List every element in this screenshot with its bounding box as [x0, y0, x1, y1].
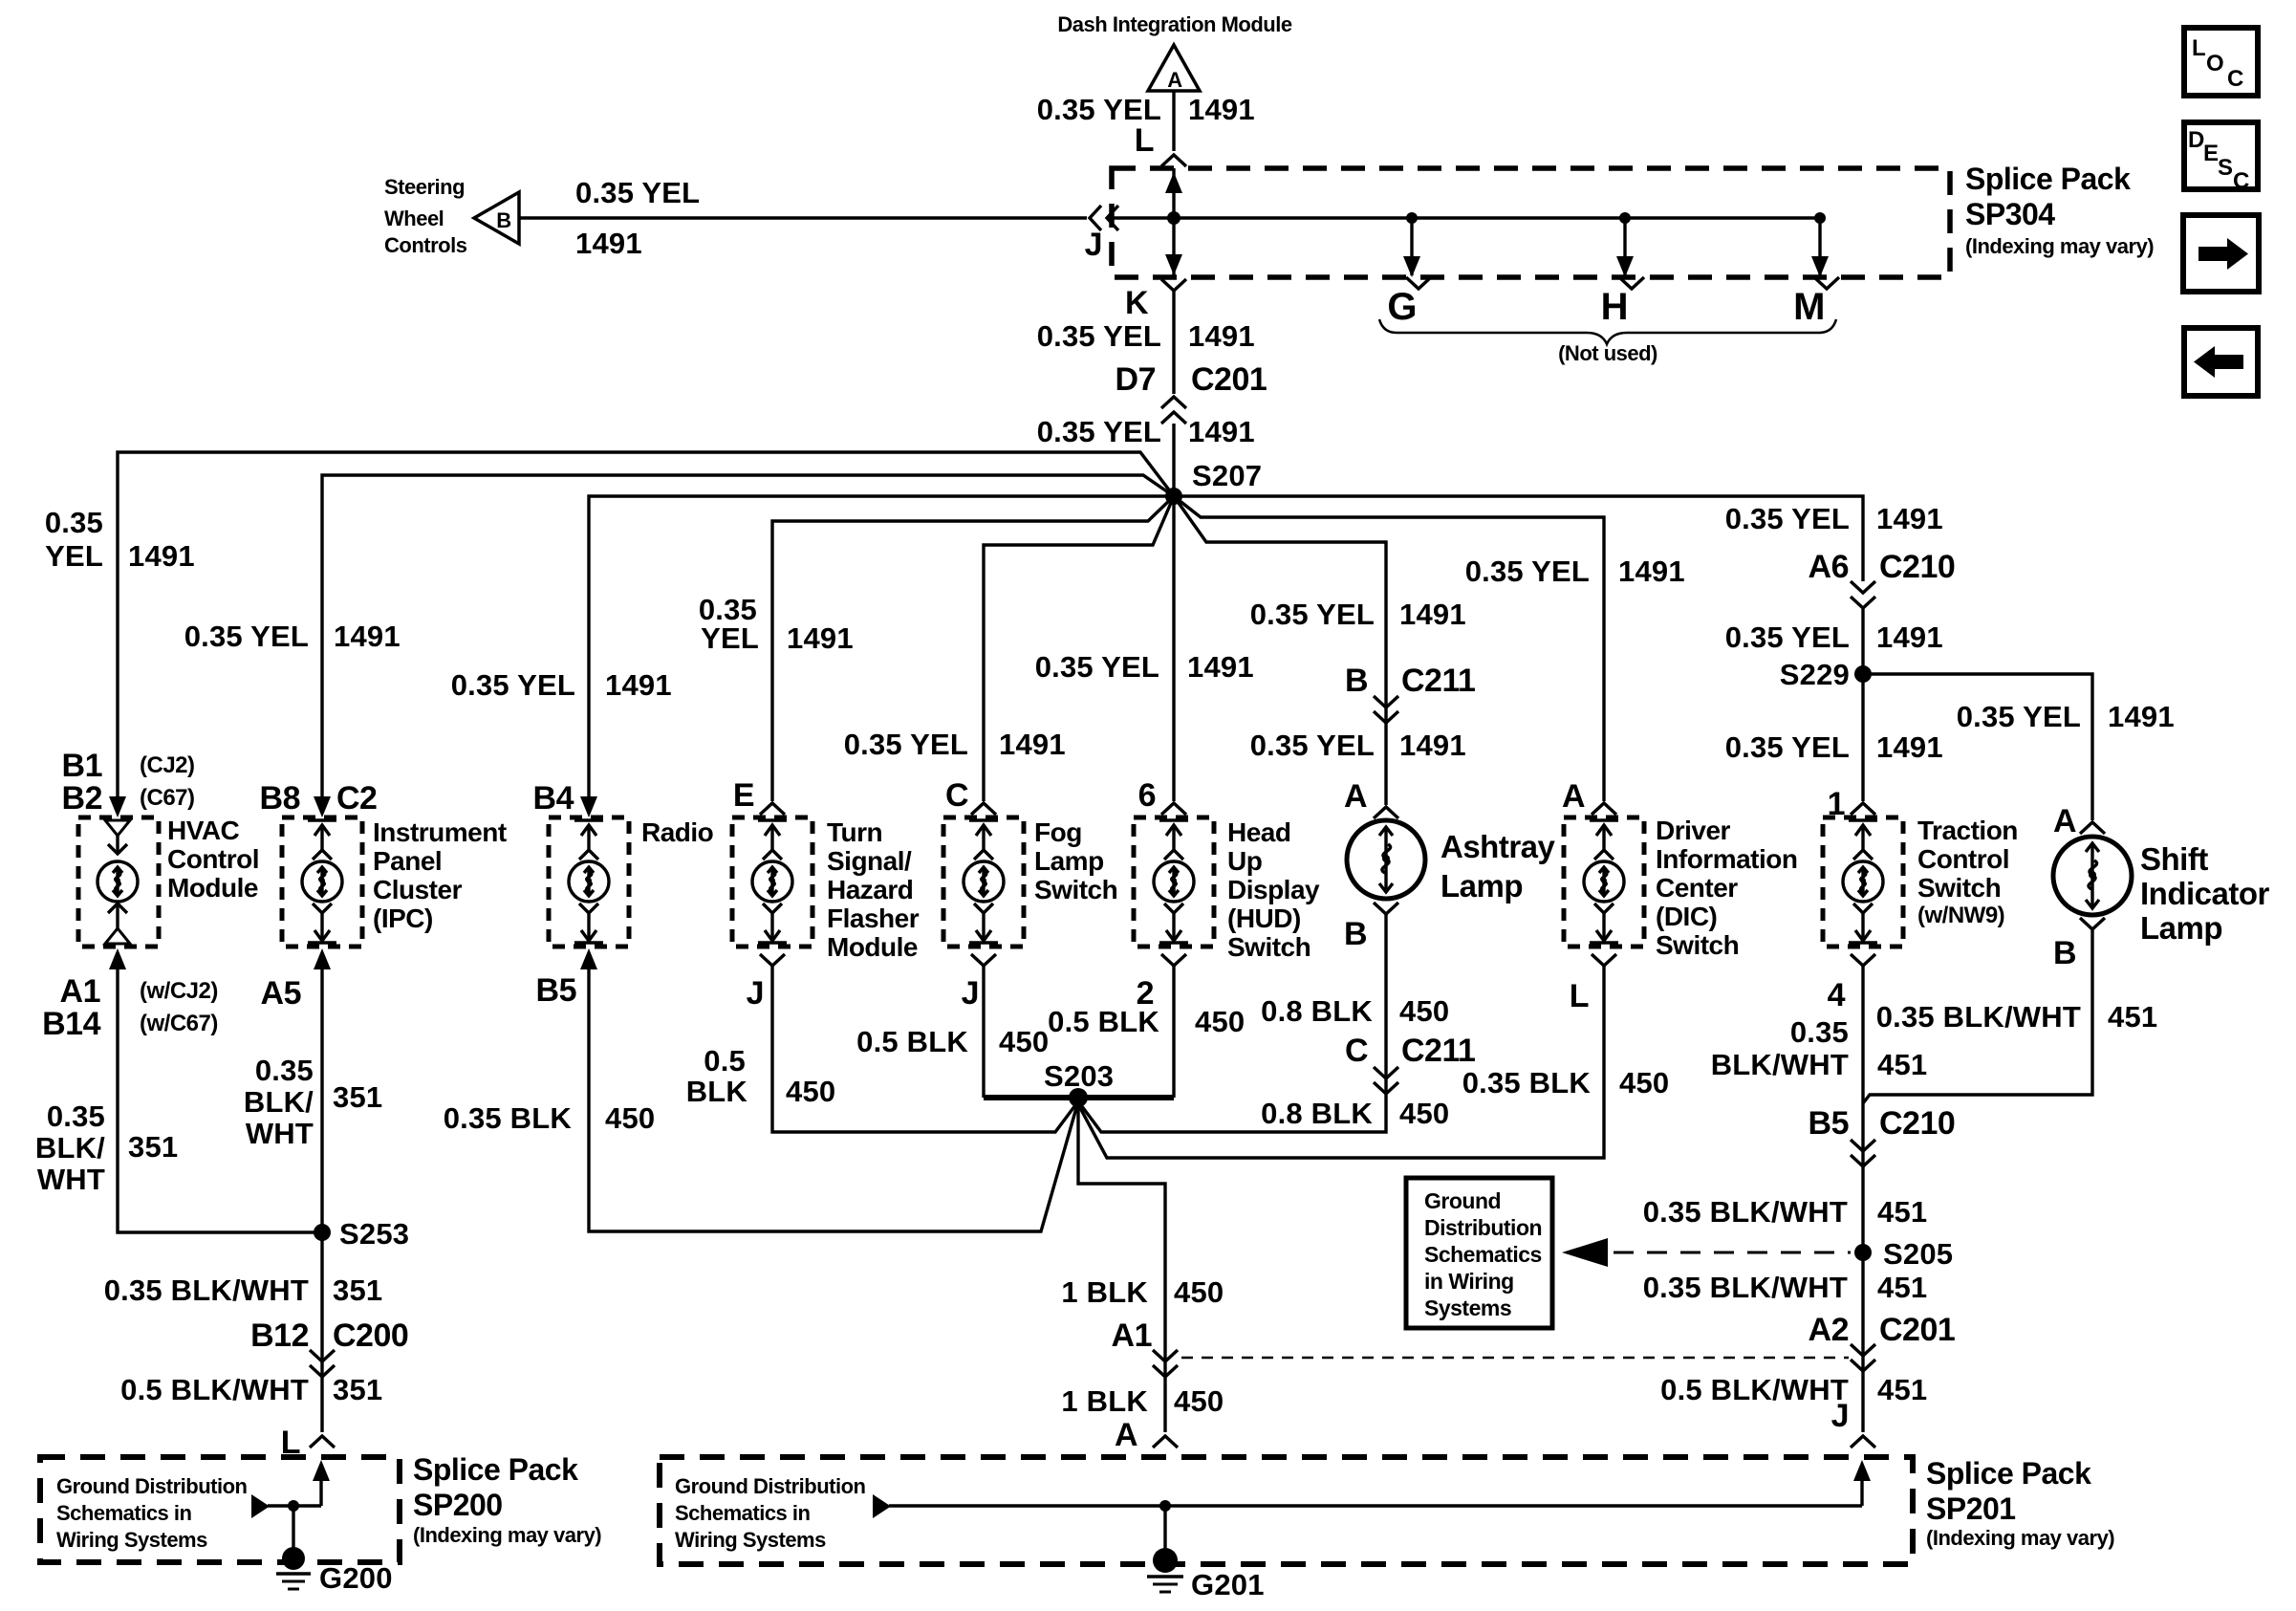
wire label 0.5 BLK 450 (HUD ground) [1048, 1005, 1245, 1038]
wire label 1 BLK 450 (above A1) [1061, 1275, 1224, 1309]
svg-text:0.35 YEL: 0.35 YEL [1250, 729, 1375, 762]
svg-text:Systems: Systems [1424, 1295, 1511, 1320]
svg-text:A: A [1115, 1417, 1137, 1453]
svg-text:E: E [2203, 141, 2219, 166]
chevron at SP201 pin J [1851, 1436, 1875, 1448]
ground G200 [276, 1547, 311, 1589]
svg-text:in Wiring: in Wiring [1424, 1269, 1514, 1294]
connector A2 C201 labels [1809, 1312, 1956, 1348]
connector C201 boundary dashed line [1181, 1357, 1849, 1360]
Instrument Panel Cluster dashed box [282, 817, 362, 947]
svg-text:Steering: Steering [384, 175, 465, 199]
svg-text:C: C [2233, 168, 2249, 194]
svg-text:B5: B5 [536, 972, 576, 1009]
svg-text:B1: B1 [62, 748, 102, 784]
wire label 0.8 BLK 450 (Ashtray lower) [1261, 1097, 1449, 1130]
svg-text:0.5 BLK/WHT: 0.5 BLK/WHT [1660, 1373, 1849, 1406]
wire label 0.35 YEL 1491 (C210 to S229) [1725, 620, 1943, 654]
svg-text:0.35 BLK/WHT: 0.35 BLK/WHT [1876, 1000, 2081, 1034]
svg-text:Ashtray: Ashtray [1440, 829, 1556, 864]
wire S207 to Turn Signal Hazard Flasher Module [772, 496, 1174, 801]
Traction connector symbol [1843, 820, 1883, 943]
svg-text:G200: G200 [319, 1561, 393, 1595]
svg-text:351: 351 [333, 1080, 382, 1114]
chevron at DIC pin A [1592, 803, 1616, 815]
svg-text:Control: Control [1917, 844, 2009, 874]
svg-text:(Indexing may vary): (Indexing may vary) [1965, 234, 2154, 258]
Ashtray Lamp symbol [1347, 820, 1425, 899]
splice branch H inside SP304 [1616, 212, 1634, 277]
Fog connector symbol [964, 820, 1004, 943]
svg-text:Up: Up [1227, 846, 1262, 876]
svg-text:1491: 1491 [1187, 650, 1254, 684]
svg-text:451: 451 [1877, 1271, 1927, 1304]
Instrument Panel Cluster label [373, 817, 507, 933]
svg-text:A1: A1 [1112, 1317, 1152, 1354]
wire label 0.35 BLK/WHT 451 (above S205) [1643, 1195, 1928, 1229]
chevron at pin A (G201 box) [1153, 1436, 1178, 1448]
svg-text:L: L [1570, 978, 1589, 1014]
svg-text:B8: B8 [260, 780, 300, 816]
svg-text:(w/NW9): (w/NW9) [1917, 903, 2004, 928]
svg-text:SP201: SP201 [1926, 1491, 2016, 1526]
svg-text:D: D [2188, 127, 2204, 153]
svg-text:C: C [945, 777, 968, 814]
arrow line inside G201 box [873, 1494, 1862, 1518]
HVAC connector symbol [97, 820, 138, 944]
svg-text:1491: 1491 [334, 620, 401, 653]
svg-text:0.35 YEL: 0.35 YEL [575, 176, 700, 209]
ground distribution dashed box (G201 / SP201) [660, 1457, 1913, 1564]
wire Turn ground to S203 [772, 966, 1078, 1132]
arrow up from Radio pin B5 [580, 948, 597, 969]
left-arrow sidebar box [2184, 328, 2258, 396]
svg-text:451: 451 [1877, 1195, 1927, 1229]
svg-text:0.35: 0.35 [45, 506, 103, 539]
splice bus S203 [984, 1095, 1174, 1100]
wire label 0.35 BLK/WHT 351 (HVAC ground) [35, 1099, 178, 1196]
svg-text:BLK: BLK [686, 1075, 748, 1108]
svg-text:G201: G201 [1191, 1568, 1265, 1601]
svg-text:0.35 YEL: 0.35 YEL [1465, 555, 1590, 588]
splice pack SP304 dashed box [1112, 168, 1950, 277]
wire label 0.35 BLK/WHT 451 (Shift ground) [1876, 1000, 2158, 1034]
svg-text:Information: Information [1656, 844, 1798, 874]
svg-text:K: K [1125, 285, 1149, 321]
arrow up inside SP201 [1853, 1460, 1871, 1481]
svg-text:Radio: Radio [641, 817, 714, 847]
svg-text:B: B [496, 208, 510, 232]
dashed arrow S205 to ground distribution note [1562, 1238, 1851, 1267]
arrowhead into IPC pin [314, 796, 331, 817]
Turn connector symbol [752, 820, 792, 943]
arrowhead into HVAC pin [109, 796, 126, 817]
svg-text:1491: 1491 [128, 539, 195, 573]
svg-text:SP200: SP200 [413, 1488, 503, 1522]
wire C210 to S229 [1861, 608, 1864, 674]
wire 1491 to Steering Wheel Controls [519, 216, 1087, 219]
svg-text:SP304: SP304 [1965, 197, 2055, 231]
wire S203 to G201 [1078, 1101, 1165, 1432]
svg-text:0.35 YEL: 0.35 YEL [1035, 650, 1159, 684]
svg-text:Shift: Shift [2140, 841, 2208, 877]
svg-text:Splice Pack: Splice Pack [1965, 162, 2131, 196]
svg-text:1491: 1491 [575, 227, 642, 260]
svg-text:0.35: 0.35 [47, 1099, 105, 1133]
svg-text:Wiring Systems: Wiring Systems [675, 1528, 826, 1552]
Fog Lamp Switch label [1034, 817, 1117, 904]
wire 1491 from C201 to S207 [1172, 424, 1175, 496]
svg-text:450: 450 [786, 1075, 835, 1108]
svg-text:0.35 YEL: 0.35 YEL [1725, 620, 1850, 654]
pin M chevron and label [1793, 277, 1839, 328]
pin A1 B14 labels (HVAC) [42, 973, 100, 1042]
connector C200 double chevron [310, 1350, 335, 1377]
connector B12 C200 labels [250, 1317, 408, 1354]
wire S207 to Instrument Panel Cluster [322, 475, 1174, 796]
svg-text:1491: 1491 [1876, 730, 1943, 764]
svg-text:B: B [1344, 916, 1367, 952]
svg-text:Lamp: Lamp [1440, 868, 1523, 903]
svg-text:0.35 YEL: 0.35 YEL [1250, 598, 1375, 631]
svg-text:451: 451 [2108, 1000, 2157, 1034]
svg-text:(w/C67): (w/C67) [140, 1011, 218, 1036]
arrow up inside SP304 [1165, 172, 1182, 193]
svg-text:(IPC): (IPC) [373, 903, 433, 933]
Head Up Display Switch label [1227, 817, 1320, 962]
svg-text:Distribution: Distribution [1424, 1215, 1542, 1240]
wire label 0.35 YEL 1491 (Traction feed top) [1725, 502, 1943, 535]
wire S207 to Traction Control Switch [1174, 496, 1863, 581]
svg-text:B2: B2 [62, 780, 102, 816]
wire label 0.35 BLK/WHT 451 (Traction) [1711, 1015, 1928, 1081]
svg-text:Hazard: Hazard [827, 875, 913, 904]
svg-text:Instrument: Instrument [373, 817, 507, 847]
wire DIC ground to S203 [1078, 966, 1604, 1158]
chevron at DIC pin L [1592, 954, 1616, 966]
wire label 0.35 BLK 450 (Radio ground) [444, 1101, 656, 1135]
pin H chevron and label [1601, 277, 1644, 328]
Shift Indicator Lamp label [2140, 841, 2270, 946]
wire S207 to Fog Lamp Switch [984, 496, 1174, 801]
svg-text:0.35 YEL: 0.35 YEL [1957, 700, 2081, 733]
svg-text:Panel: Panel [373, 846, 442, 876]
pin G chevron and label [1387, 277, 1431, 328]
wire inside SP200 [319, 1472, 322, 1506]
svg-text:L: L [2192, 35, 2205, 61]
svg-text:S207: S207 [1192, 459, 1262, 492]
svg-text:WHT: WHT [37, 1163, 105, 1196]
wire label 0.35 YEL 1491 (Turn feed) [699, 593, 854, 655]
svg-text:1491: 1491 [999, 728, 1066, 761]
wire label 0.35 BLK 450 (DIC ground) [1462, 1066, 1670, 1099]
svg-text:S253: S253 [339, 1217, 409, 1251]
node S203 junction dot [1069, 1088, 1088, 1107]
Traction Control Switch label [1917, 816, 2018, 928]
wire label 0.35 YEL 1491 (HUD feed) [1035, 650, 1254, 684]
svg-text:0.5 BLK: 0.5 BLK [856, 1025, 968, 1058]
svg-text:Ground: Ground [1424, 1188, 1501, 1213]
off-page connector triangle A (Dash Integration Module) [1148, 45, 1200, 92]
chevron at Ashtray pin B [1374, 903, 1398, 914]
arrow up from HVAC pins A1 B14 [109, 948, 126, 969]
Ashtray Lamp label [1440, 829, 1556, 903]
svg-text:Traction: Traction [1917, 816, 2018, 845]
Fog Lamp Switch dashed box [943, 817, 1024, 947]
off-page connector triangle B (Steering Wheel Controls) [474, 192, 519, 244]
svg-text:Lamp: Lamp [2140, 910, 2222, 946]
svg-text:1491: 1491 [1876, 620, 1943, 654]
svg-text:Wiring Systems: Wiring Systems [56, 1528, 207, 1552]
svg-text:B: B [2053, 935, 2076, 971]
right-arrow sidebar box [2183, 215, 2259, 292]
wire label 0.35 YEL / 1491 (steering) [575, 176, 700, 260]
wire Radio ground to S203 [589, 964, 1078, 1231]
svg-text:1491: 1491 [2108, 700, 2175, 733]
svg-text:1491: 1491 [1188, 415, 1255, 448]
svg-text:0.35 BLK: 0.35 BLK [444, 1101, 573, 1135]
svg-text:(Not used): (Not used) [1558, 341, 1657, 365]
svg-text:1 BLK: 1 BLK [1061, 1275, 1148, 1309]
svg-text:0.35: 0.35 [1790, 1015, 1849, 1049]
svg-text:450: 450 [1619, 1066, 1669, 1099]
svg-text:A: A [1344, 778, 1367, 815]
svg-text:S: S [2218, 155, 2233, 181]
chevron at SP200 pin L [310, 1436, 335, 1448]
wire label 0.35 YEL 1491 (DIC feed) [1465, 555, 1685, 588]
svg-text:HVAC: HVAC [167, 816, 240, 845]
svg-text:351: 351 [128, 1130, 178, 1164]
wire label 0.35 YEL 1491 (Radio feed) [451, 668, 672, 702]
svg-text:Lamp: Lamp [1034, 846, 1104, 876]
svg-text:Switch: Switch [1034, 875, 1117, 904]
svg-text:Splice Pack: Splice Pack [1926, 1456, 2091, 1491]
svg-text:Indicator: Indicator [2140, 876, 2270, 911]
wire label 0.8 BLK 450 (Ashtray upper) [1261, 994, 1449, 1028]
svg-text:1491: 1491 [1876, 502, 1943, 535]
wire label 0.5 BLK 450 (Turn ground) [686, 1044, 836, 1108]
wire label 0.35 YEL 1491 (Traction lower) [1725, 730, 1943, 764]
splice branch G inside SP304 [1403, 212, 1420, 277]
Turn Signal Hazard Flasher Module label [827, 817, 920, 962]
svg-text:Module: Module [167, 873, 258, 903]
svg-text:A5: A5 [261, 975, 301, 1012]
ground distribution solid box [1406, 1178, 1552, 1328]
arrow up inside SP200 [313, 1460, 330, 1481]
wire label 0.5 BLK 450 (Fog ground) [856, 1025, 1049, 1058]
svg-text:Schematics in: Schematics in [56, 1501, 192, 1525]
chevron at HUD pin 2 [1161, 954, 1186, 966]
connector C C211 labels (Ashtray) [1345, 1033, 1475, 1069]
svg-text:(w/CJ2): (w/CJ2) [140, 978, 218, 1004]
chevron at Shift pin A [2080, 822, 2105, 834]
connector C210 double chevron [1851, 581, 1875, 608]
svg-text:0.35 BLK/WHT: 0.35 BLK/WHT [1643, 1271, 1848, 1304]
svg-text:S205: S205 [1883, 1237, 1953, 1271]
wire S207 to DIC Switch [1174, 496, 1604, 801]
svg-text:4: 4 [1828, 977, 1846, 1013]
chevron at HUD pin 6 [1161, 803, 1186, 815]
Ground Distribution note (G201 box) [675, 1474, 866, 1552]
connector C211 double chevron (Ashtray) [1374, 696, 1398, 723]
arrow up from IPC pin A5 [314, 948, 331, 969]
Ground Distribution note (SP200) [56, 1474, 248, 1552]
arrow line inside SP200 [251, 1494, 321, 1518]
svg-text:L: L [1135, 122, 1154, 159]
wire label 0.35 YEL 1491 (top) [1037, 93, 1255, 126]
connector A6 C210 labels [1809, 549, 1956, 585]
svg-text:0.35 YEL: 0.35 YEL [1037, 319, 1161, 353]
wire label 0.35 YEL 1491 (HVAC feed) [45, 506, 195, 573]
connector B5 C210 labels [1809, 1105, 1956, 1142]
svg-text:0.35 YEL: 0.35 YEL [1725, 730, 1850, 764]
svg-text:451: 451 [1877, 1373, 1927, 1406]
brace under G H M [1379, 319, 1836, 344]
Turn Signal Hazard Flasher Module dashed box [732, 817, 812, 947]
svg-text:Center: Center [1656, 873, 1738, 903]
wire HVAC ground to S253 [118, 964, 315, 1232]
wire S207 to HVAC Control Module [118, 452, 1174, 796]
connector B C211 labels (Ashtray) [1345, 663, 1475, 699]
svg-text:A: A [2053, 803, 2076, 839]
svg-text:0.35 BLK/WHT: 0.35 BLK/WHT [104, 1274, 309, 1307]
svg-text:BLK/WHT: BLK/WHT [1711, 1048, 1849, 1081]
svg-text:450: 450 [1399, 994, 1449, 1028]
svg-text:0.8 BLK: 0.8 BLK [1261, 1097, 1373, 1130]
svg-text:0.5 BLK/WHT: 0.5 BLK/WHT [120, 1373, 309, 1406]
svg-text:1491: 1491 [1188, 93, 1255, 126]
svg-text:0.5: 0.5 [704, 1044, 746, 1078]
svg-text:Display: Display [1227, 875, 1320, 904]
svg-text:Fog: Fog [1034, 817, 1082, 847]
svg-text:YEL: YEL [45, 539, 103, 573]
wire HUD ground to S203 bus [1172, 966, 1175, 1098]
wire S207 to Radio [589, 496, 1174, 796]
svg-text:D7: D7 [1116, 361, 1156, 398]
svg-text:Switch: Switch [1656, 930, 1739, 960]
Splice Pack SP201 label [1926, 1456, 2114, 1550]
HUD connector symbol [1154, 820, 1194, 943]
svg-text:Ground Distribution: Ground Distribution [675, 1474, 866, 1498]
svg-text:0.35 YEL: 0.35 YEL [1725, 502, 1850, 535]
wire label 0.5 BLK/WHT 451 [1660, 1373, 1927, 1406]
connector A1 double chevron [1153, 1350, 1178, 1377]
Head Up Display Switch dashed box [1134, 817, 1214, 947]
svg-text:Ground Distribution: Ground Distribution [56, 1474, 248, 1498]
chevron at Fog pin C [971, 803, 996, 815]
svg-text:C200: C200 [333, 1317, 408, 1354]
svg-text:0.5 BLK: 0.5 BLK [1048, 1005, 1159, 1038]
svg-text:Flasher: Flasher [827, 903, 920, 933]
Ground Distribution note (solid box) [1424, 1188, 1542, 1320]
wire to G200 [292, 1506, 294, 1551]
wire label 0.35 BLK/WHT 351 (IPC ground) [244, 1054, 382, 1150]
svg-text:A: A [1167, 68, 1182, 92]
svg-text:Wheel: Wheel [384, 207, 444, 230]
node S205 junction dot [1854, 1244, 1872, 1261]
svg-text:1491: 1491 [605, 668, 672, 702]
chevron at Traction pin 1 [1851, 803, 1875, 815]
pin B1 B2 labels (HVAC) [62, 748, 102, 816]
svg-text:J: J [747, 975, 764, 1012]
svg-text:C: C [2227, 66, 2243, 92]
svg-text:A2: A2 [1809, 1312, 1849, 1348]
svg-text:351: 351 [333, 1373, 382, 1406]
wire label 0.35 YEL 1491 (Shift feed) [1957, 700, 2175, 733]
wire label 0.35 YEL 1491 (IPC feed) [184, 620, 401, 653]
arrow down inside SP304 [1165, 254, 1182, 275]
svg-text:Module: Module [827, 932, 918, 962]
connector C201 double chevron (up) [1161, 397, 1186, 424]
svg-text:451: 451 [1877, 1048, 1927, 1081]
DESC sidebar box [2184, 122, 2258, 194]
svg-text:Turn: Turn [827, 817, 882, 847]
svg-text:Head: Head [1227, 817, 1290, 847]
connector C201 double chevron (right) [1851, 1344, 1875, 1371]
splice bus inside SP304 [1112, 216, 1820, 219]
svg-text:Signal/: Signal/ [827, 846, 912, 876]
connector C210 double chevron (ground) [1851, 1140, 1875, 1166]
svg-text:450: 450 [1195, 1005, 1245, 1038]
svg-text:0.35 BLK: 0.35 BLK [1462, 1066, 1592, 1099]
svg-text:B4: B4 [533, 780, 574, 816]
wire IPC ground to SP200 [320, 964, 323, 1432]
svg-text:(Indexing may vary): (Indexing may vary) [413, 1523, 601, 1547]
Radio connector symbol [569, 820, 609, 943]
svg-text:0.35: 0.35 [255, 1054, 314, 1087]
svg-text:Dash Integration Module: Dash Integration Module [1057, 12, 1291, 36]
svg-text:J: J [962, 975, 979, 1012]
svg-text:B12: B12 [250, 1317, 309, 1354]
IPC connector symbol [302, 820, 342, 943]
(w/CJ2) (w/C67) labels [140, 978, 218, 1036]
junction dot to G201 [1159, 1500, 1171, 1512]
node S253 junction dot [314, 1224, 331, 1241]
svg-text:1491: 1491 [1618, 555, 1685, 588]
Splice Pack SP304 label [1965, 162, 2154, 258]
svg-text:(HUD): (HUD) [1227, 903, 1301, 933]
svg-text:WHT: WHT [246, 1117, 314, 1150]
DIC connector symbol [1584, 820, 1624, 943]
wire S229 to Traction pin 1 [1861, 674, 1864, 801]
svg-text:S229: S229 [1780, 658, 1850, 691]
svg-text:0.35 YEL: 0.35 YEL [184, 620, 309, 653]
svg-text:B: B [1345, 663, 1368, 699]
svg-text:Schematics in: Schematics in [675, 1501, 811, 1525]
svg-text:Schematics: Schematics [1424, 1242, 1542, 1267]
svg-text:351: 351 [333, 1274, 382, 1307]
svg-text:Control: Control [167, 844, 259, 874]
node S207 junction dot [1165, 488, 1182, 505]
wire S207 to HUD Switch [1172, 496, 1175, 801]
wire label 0.5 BLK/WHT 351 [120, 1373, 382, 1406]
LOC sidebar box [2184, 28, 2258, 96]
svg-text:BLK/: BLK/ [244, 1085, 314, 1119]
wire inside SP201 [1860, 1472, 1863, 1506]
svg-text:O: O [2206, 51, 2223, 76]
connector chevron at pin L [1161, 155, 1186, 166]
svg-text:C211: C211 [1401, 663, 1475, 699]
svg-text:(DIC): (DIC) [1656, 902, 1717, 931]
wire Ashtray ground to S203 [1078, 914, 1386, 1132]
svg-text:Controls: Controls [384, 233, 467, 257]
HVAC Control Module label [167, 816, 259, 903]
svg-text:BLK/: BLK/ [35, 1131, 105, 1165]
svg-text:M: M [1793, 286, 1825, 328]
pin K chevron and label below SP304 [1125, 279, 1186, 321]
svg-text:1491: 1491 [1188, 319, 1255, 353]
svg-text:A1: A1 [60, 973, 100, 1010]
